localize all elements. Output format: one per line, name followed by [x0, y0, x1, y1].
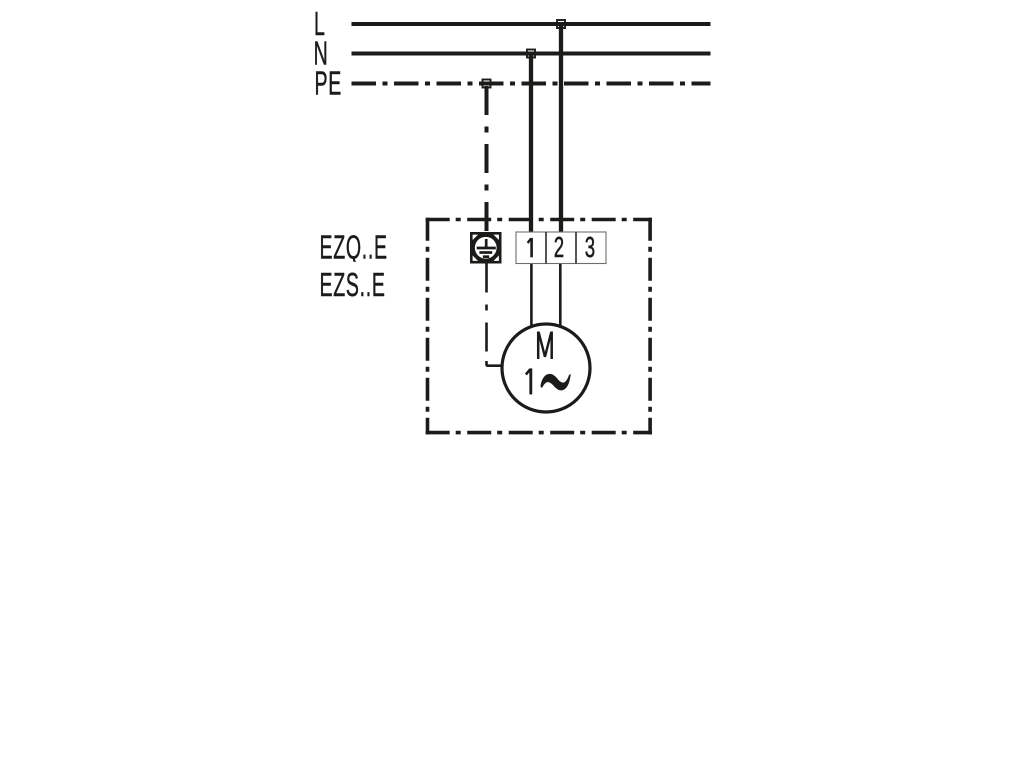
terminal block 1 2 3	[516, 232, 606, 264]
wire: L supply rail	[352, 22, 711, 26]
wire: PE supply rail (dash-dot)	[352, 82, 711, 86]
wire: earth lead elbow to motor	[487, 361, 504, 366]
wire: L drop to terminal 2	[559, 22, 563, 233]
motor letter M	[538, 332, 552, 360]
svg-text:EZQ..E: EZQ..E	[320, 228, 388, 266]
motor wave ~	[540, 374, 570, 391]
motor M1~	[502, 324, 590, 412]
svg-text:EZS..E: EZS..E	[320, 265, 386, 303]
white trim of Q descender	[352, 262, 374, 266]
wire: terminal 1 lead to motor	[530, 264, 533, 331]
node: junction square on PE rail	[483, 80, 491, 88]
motor label 1 (custom no-foot glyph)	[526, 368, 531, 394]
earth terminal PE clamp symbol	[470, 232, 502, 264]
wire: N supply rail	[352, 52, 711, 56]
wire: earth lead below terminal (dash-dot)	[485, 264, 488, 352]
node: junction square on N rail	[527, 50, 535, 58]
terminal label 1 (custom no-foot glyph)	[528, 238, 532, 257]
wire: N drop to terminal 1	[529, 52, 533, 233]
ground glyph inside clamp	[477, 239, 496, 257]
node: junction square on L rail	[557, 20, 565, 28]
enclosure: dash-dot device outline box	[426, 218, 652, 435]
svg-text:3: 3	[585, 232, 595, 264]
white corner notches	[473, 235, 478, 240]
wire: PE drop to earth terminal (dash-dot)	[485, 86, 489, 236]
wire: terminal 2 lead to motor	[559, 264, 562, 331]
svg-text:PE: PE	[315, 64, 342, 102]
svg-text:2: 2	[554, 232, 564, 264]
